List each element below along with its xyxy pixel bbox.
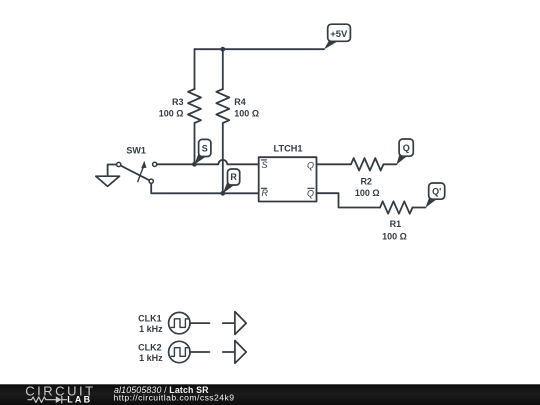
label CLK2 value bbox=[139, 353, 163, 363]
svg-text:100 Ω: 100 Ω bbox=[234, 108, 259, 118]
svg-text:Q: Q bbox=[403, 143, 410, 153]
resistor R1 bbox=[380, 201, 413, 213]
junction: R node bbox=[220, 191, 225, 196]
latch LTCH1 body bbox=[259, 157, 317, 201]
svg-text:CLK2: CLK2 bbox=[138, 342, 162, 352]
svg-text:R: R bbox=[262, 188, 269, 198]
svg-text:SW1: SW1 bbox=[126, 145, 146, 155]
svg-text:S: S bbox=[202, 143, 208, 153]
junction: top rail / R4 bbox=[220, 47, 225, 52]
label CLK1 value bbox=[139, 324, 163, 334]
svg-text:100 Ω: 100 Ω bbox=[159, 108, 184, 118]
svg-text:100 Ω: 100 Ω bbox=[382, 231, 407, 241]
label R3 value bbox=[159, 108, 184, 118]
svg-text:1 kHz: 1 kHz bbox=[139, 353, 163, 363]
svg-text:LTCH1: LTCH1 bbox=[274, 143, 303, 153]
net flag Q' bbox=[426, 183, 445, 208]
wire: R2 to Q flag bbox=[384, 163, 397, 165]
svg-text:R3: R3 bbox=[172, 97, 184, 107]
svg-text:1 kHz: 1 kHz bbox=[139, 324, 163, 334]
pin Q bbox=[307, 160, 314, 170]
wire: R4 top lead bbox=[222, 49, 224, 89]
power flag +5V bbox=[324, 24, 350, 49]
pin S-bar bbox=[261, 160, 267, 170]
wire: +5V top rail bbox=[195, 48, 325, 50]
junction: S node bbox=[192, 162, 197, 167]
pin R-bar bbox=[261, 188, 268, 198]
wire: R1 to Q' flag bbox=[413, 207, 426, 209]
svg-text:S: S bbox=[262, 160, 268, 170]
svg-text:R: R bbox=[230, 172, 237, 182]
label R2 value bbox=[355, 188, 380, 198]
label LTCH1 bbox=[274, 143, 303, 153]
resistor R3 bbox=[188, 89, 201, 123]
wire: S net from switch to latch with hop over R4 lead bbox=[157, 160, 259, 164]
label CLK1 bbox=[138, 313, 162, 323]
footer bar bbox=[0, 384, 540, 405]
wire: CLK1 output bbox=[190, 322, 209, 324]
svg-text:Q: Q bbox=[307, 189, 314, 199]
net flag S bbox=[194, 139, 211, 164]
label CLK2 bbox=[138, 342, 162, 352]
svg-text:100 Ω: 100 Ω bbox=[355, 188, 380, 198]
pin Q-bar bbox=[307, 188, 314, 198]
svg-text:+5V: +5V bbox=[330, 29, 348, 40]
label R4 bbox=[234, 97, 246, 107]
label R2 bbox=[360, 176, 372, 186]
wire: R net from switch to latch bbox=[151, 183, 259, 193]
footer logo CIRCUIT bbox=[25, 383, 95, 398]
label R1 bbox=[390, 219, 402, 229]
footer logo LAB bbox=[67, 395, 92, 405]
svg-text:R1: R1 bbox=[390, 219, 402, 229]
label R4 value bbox=[234, 108, 259, 118]
wire: R3 top lead bbox=[194, 49, 196, 89]
label R1 value bbox=[382, 231, 407, 241]
wire: CLK2 output bbox=[190, 351, 209, 353]
label R3 bbox=[172, 97, 184, 107]
ground bbox=[96, 165, 120, 187]
buffer at CLK1 bbox=[223, 312, 246, 335]
switch SW1 bbox=[117, 161, 157, 184]
label SW1 bbox=[126, 145, 146, 155]
svg-text:R4: R4 bbox=[234, 97, 246, 107]
footer title line bbox=[114, 385, 209, 395]
resistor R2 bbox=[351, 158, 384, 170]
wire: R3 bottom lead bbox=[194, 123, 196, 164]
net flag Q bbox=[397, 139, 414, 165]
svg-text:CLK1: CLK1 bbox=[138, 313, 162, 323]
svg-text:Q: Q bbox=[307, 160, 314, 170]
svg-text:LAB: LAB bbox=[67, 395, 92, 405]
clock source CLK2 bbox=[169, 341, 190, 362]
wire: Q-bar output lead bbox=[317, 193, 381, 207]
footer logo schematic icon bbox=[28, 396, 67, 403]
svg-text:Q': Q' bbox=[432, 187, 441, 197]
buffer at CLK2 bbox=[223, 341, 246, 364]
wire: Q output lead bbox=[317, 163, 352, 165]
svg-text:R2: R2 bbox=[360, 176, 372, 186]
net flag R bbox=[223, 169, 240, 193]
resistor R4 bbox=[216, 89, 229, 123]
clock source CLK1 bbox=[169, 312, 190, 333]
svg-text:http://circuitlab.com/css24k9: http://circuitlab.com/css24k9 bbox=[114, 392, 235, 402]
footer url line bbox=[114, 392, 235, 402]
wire: R4 bottom lead bbox=[222, 123, 224, 193]
